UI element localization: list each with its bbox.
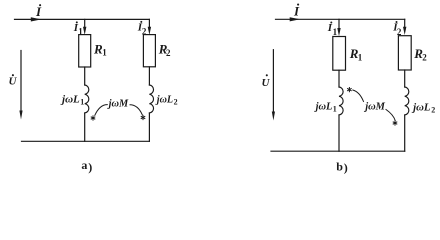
svg-text:2: 2	[422, 53, 427, 63]
svg-text:2: 2	[174, 98, 178, 107]
svg-text:1: 1	[78, 27, 83, 37]
svg-text:1: 1	[102, 48, 107, 58]
svg-text:): )	[344, 161, 348, 175]
svg-text:U: U	[9, 76, 18, 88]
svg-text:1: 1	[333, 27, 338, 37]
svg-text:a: a	[81, 158, 87, 172]
svg-text:2: 2	[166, 48, 171, 58]
svg-text:U: U	[262, 77, 271, 89]
svg-text:2: 2	[397, 27, 402, 37]
svg-text:1: 1	[358, 53, 363, 63]
svg-text:2: 2	[142, 26, 147, 36]
svg-text:): )	[88, 160, 92, 174]
svg-text:I: I	[35, 4, 42, 19]
svg-text:jωL: jωL	[314, 102, 333, 113]
svg-text:1: 1	[80, 97, 84, 106]
svg-text:jωL: jωL	[155, 95, 173, 106]
svg-text:b: b	[336, 160, 343, 174]
svg-text:jωL: jωL	[60, 95, 80, 106]
svg-text:jωL: jωL	[411, 103, 430, 114]
svg-text:2: 2	[431, 106, 435, 115]
svg-text:1: 1	[333, 105, 337, 114]
svg-text:jωM: jωM	[363, 101, 385, 112]
svg-text:jωM: jωM	[107, 98, 129, 109]
svg-text:I: I	[293, 4, 300, 19]
